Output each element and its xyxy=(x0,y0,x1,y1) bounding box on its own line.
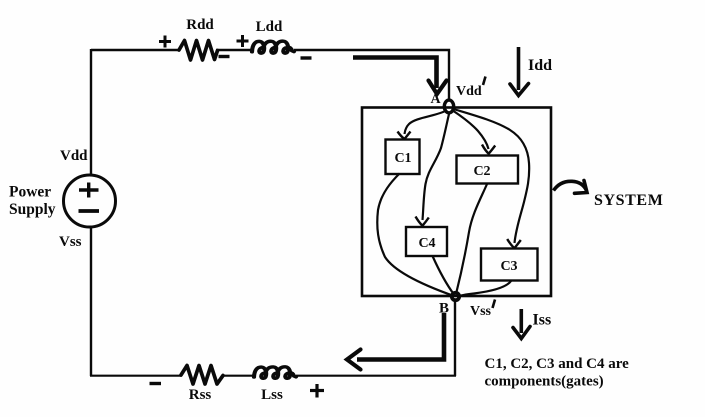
thick arrow from below B to bottom-left xyxy=(357,313,444,360)
svg-text:C1, C2, C3 and C4 are: C1, C2, C3 and C4 are xyxy=(485,356,630,372)
Iss arrow xyxy=(519,309,523,333)
wire A to C3 with arrow xyxy=(454,109,530,243)
svg-text:SYSTEM: SYSTEM xyxy=(594,192,663,209)
polarity - before Rss xyxy=(150,382,162,385)
svg-text:Iss: Iss xyxy=(533,312,552,329)
wire: left vertical from top corner down to power supply top xyxy=(90,49,92,175)
node B xyxy=(452,293,459,300)
wire A to C2 with arrow xyxy=(452,110,489,149)
svg-text:Supply: Supply xyxy=(9,201,56,218)
polarity + after Lss xyxy=(310,384,324,398)
polarity - after Rdd xyxy=(219,55,230,58)
wire C1 bottom to node B xyxy=(377,174,454,297)
thick arrow into node A from top wire xyxy=(353,58,437,89)
power supply U1 circle xyxy=(64,175,116,227)
wire C4 bottom to node B xyxy=(433,256,455,295)
svg-text:Idd: Idd xyxy=(528,57,552,74)
wire A to C1 with arrow xyxy=(405,110,448,134)
resistor Rss xyxy=(181,366,223,385)
node A xyxy=(444,100,453,113)
svg-text:A: A xyxy=(430,92,441,107)
power supply + symbol xyxy=(79,183,99,198)
wire: left vertical from power supply bottom to bottom wire xyxy=(90,227,92,376)
curved arrow pointing from SYSTEM box to label xyxy=(554,181,587,190)
polarity - after Ldd xyxy=(301,56,312,59)
wire: between resistor and inductor xyxy=(216,49,252,51)
svg-text:Lss: Lss xyxy=(261,387,283,403)
inductor Ldd xyxy=(252,41,294,53)
wire: top horizontal from power supply to resistor xyxy=(91,49,179,51)
svg-text:Rdd: Rdd xyxy=(186,17,214,33)
svg-text:C4: C4 xyxy=(418,236,435,251)
power supply - symbol xyxy=(79,209,100,213)
svg-text:Ldd: Ldd xyxy=(256,19,283,35)
component C3 box xyxy=(481,249,538,281)
svg-text:C2: C2 xyxy=(473,164,490,179)
wire: bottom horizontal from left corner to resistor Rss xyxy=(90,375,181,377)
svg-text:Vdd: Vdd xyxy=(456,84,482,99)
component C2 box xyxy=(457,156,519,184)
wire C2 bottom to node B xyxy=(456,184,487,294)
wire: between Rss and Lss xyxy=(223,375,254,377)
svg-text:Rss: Rss xyxy=(189,387,212,403)
wire: from inductor to top-right corner, down to node A xyxy=(294,50,449,101)
polarity + before Ldd xyxy=(237,35,249,47)
svg-text:Power: Power xyxy=(9,184,51,201)
component C4 box xyxy=(406,227,447,256)
svg-text:Vss: Vss xyxy=(470,304,492,319)
resistor Rdd xyxy=(179,41,218,61)
wire: vertical below node B xyxy=(454,300,456,376)
svg-text:Vdd: Vdd xyxy=(60,148,88,164)
SYSTEM box xyxy=(362,108,551,297)
wire: from Lss to below node B xyxy=(296,375,456,377)
wire A to C4 with arrow xyxy=(423,112,450,220)
svg-text:C1: C1 xyxy=(394,151,411,166)
inductor Lss xyxy=(254,367,296,379)
Idd arrow xyxy=(517,47,521,90)
component C1 box xyxy=(386,140,420,175)
svg-text:C3: C3 xyxy=(500,259,517,274)
svg-text:Vss: Vss xyxy=(59,234,82,250)
svg-text:components(gates): components(gates) xyxy=(485,374,604,390)
polarity + before Rdd xyxy=(159,36,171,48)
wire C3 bottom to node B xyxy=(457,281,511,297)
